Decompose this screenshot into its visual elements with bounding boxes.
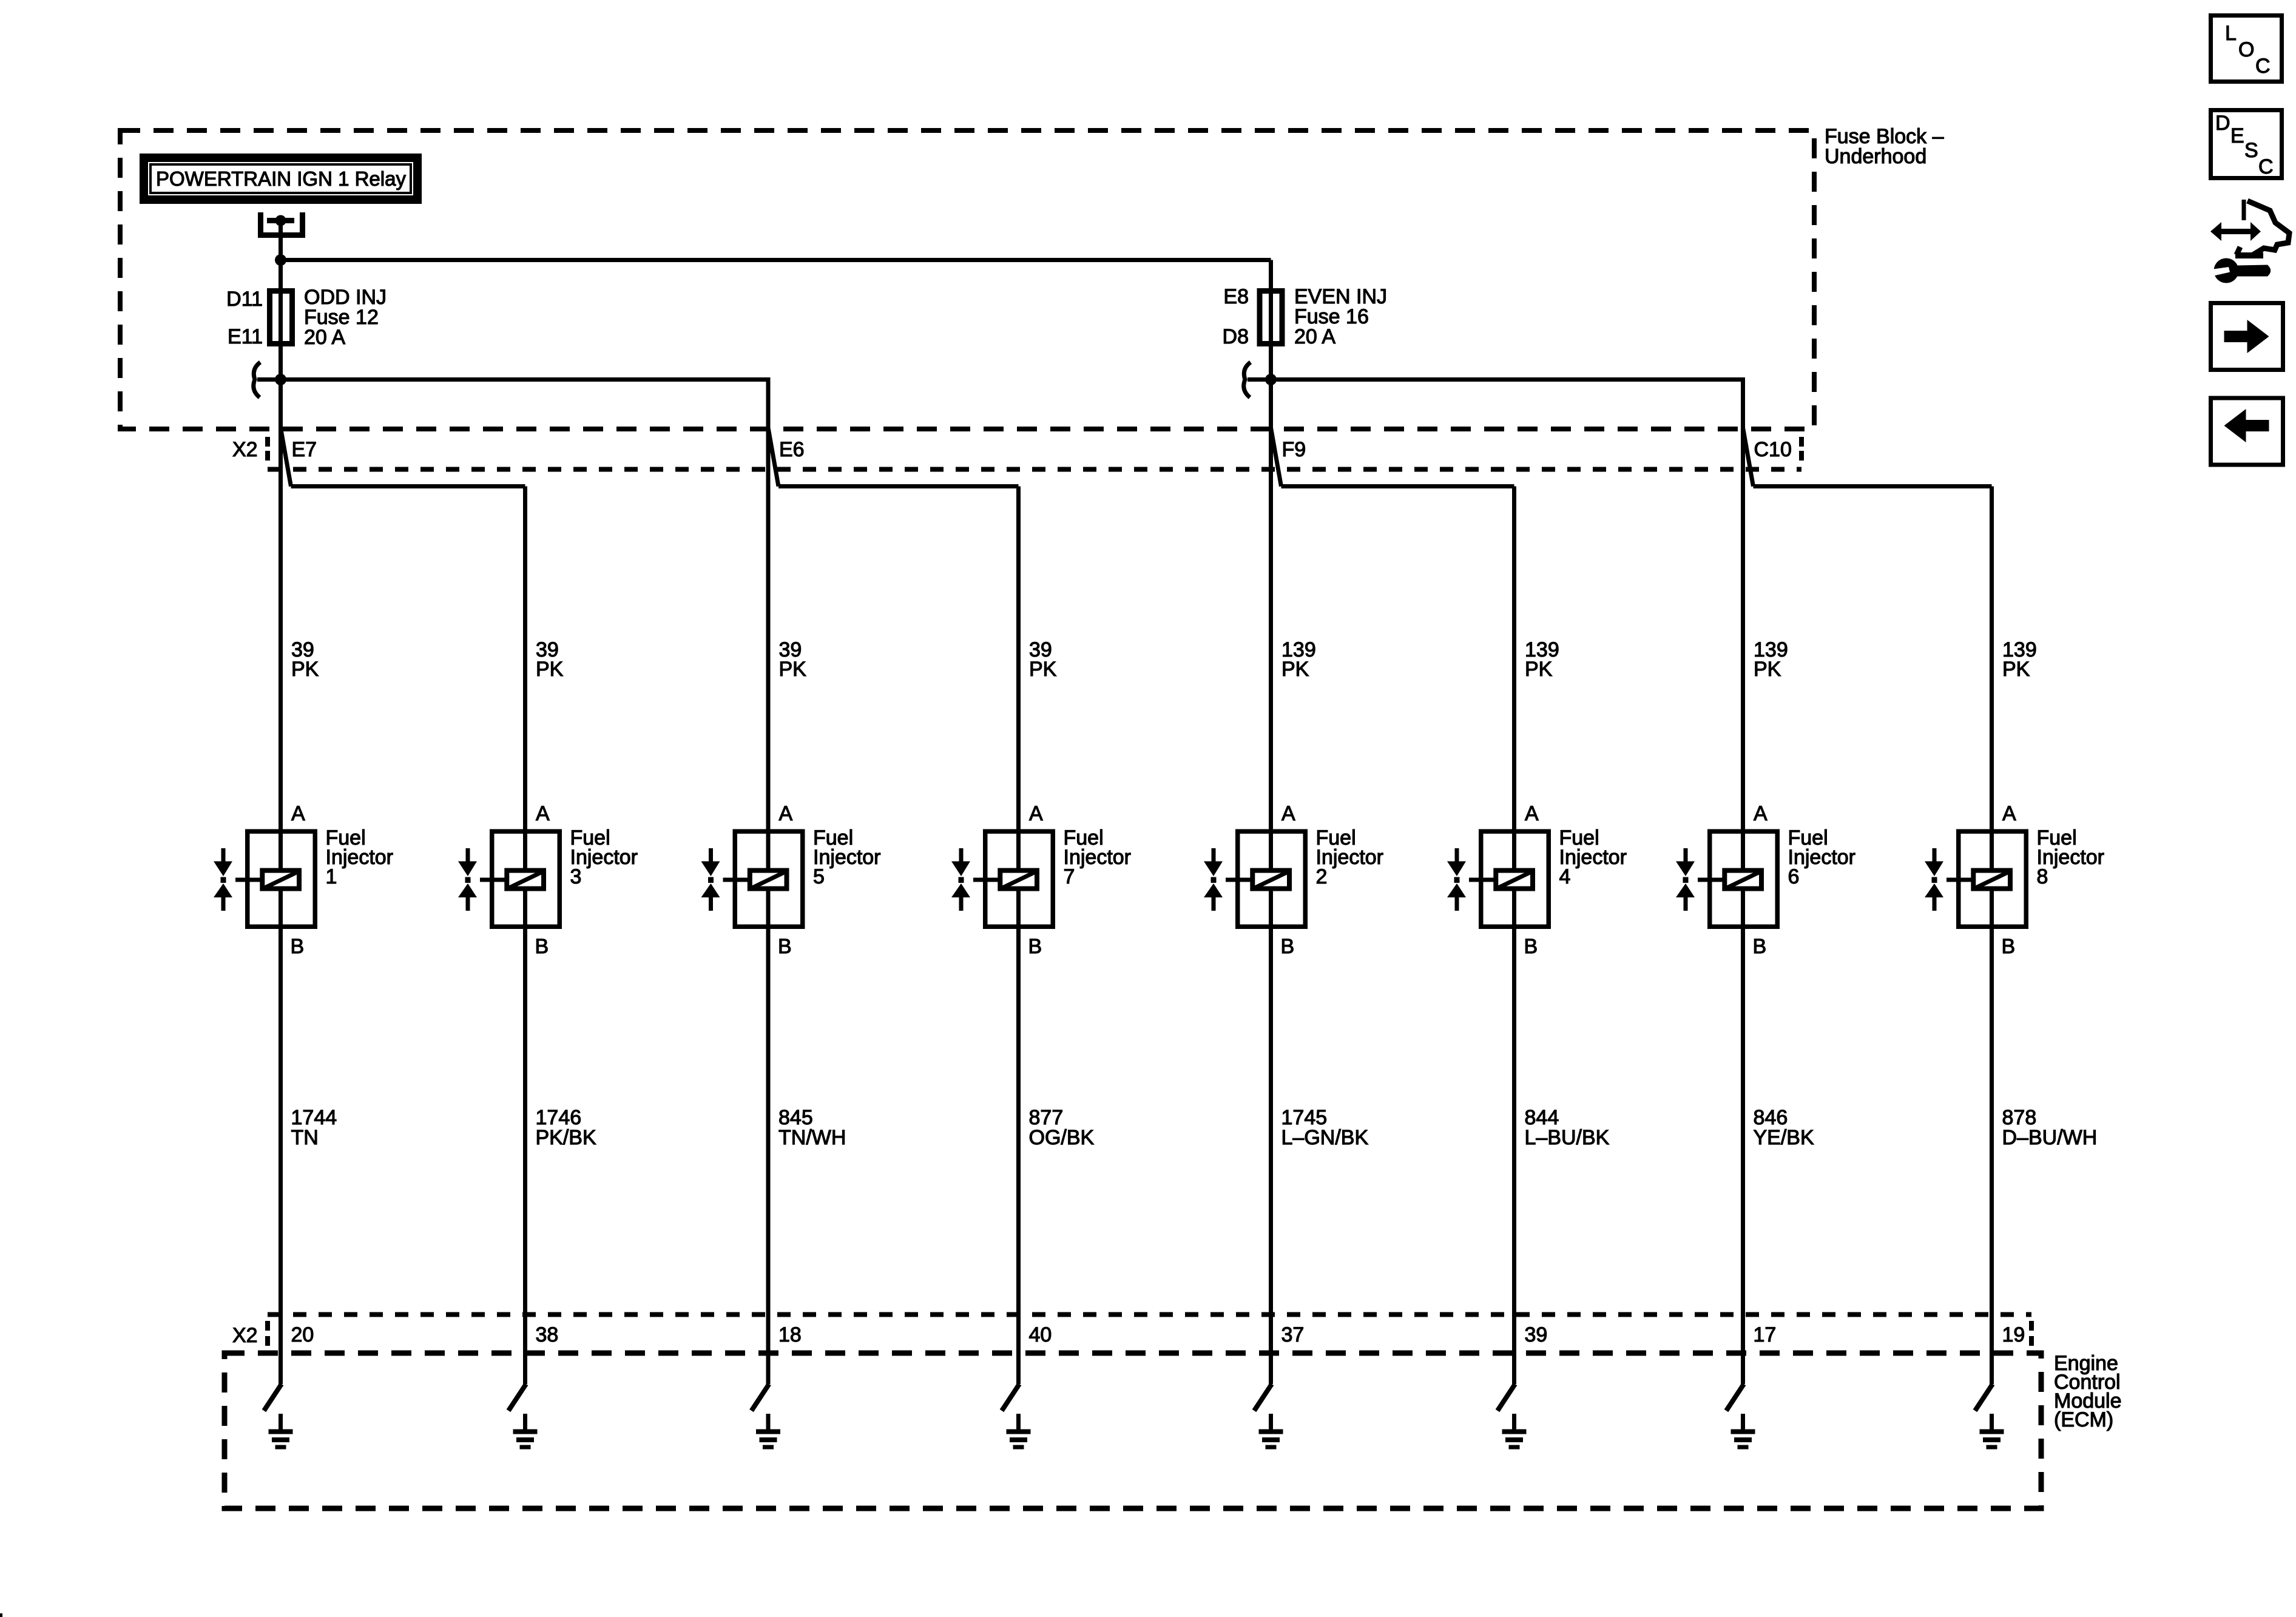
svg-text:8: 8	[2037, 865, 2048, 888]
fuel injector 2 body box	[1238, 831, 1306, 927]
fuse F16 EVEN INJ body	[1260, 291, 1282, 344]
junction dot relay output node	[275, 254, 286, 266]
svg-text:A: A	[1281, 802, 1295, 825]
fuel injector 4 body box	[1481, 831, 1549, 927]
switch driver low-side column 5	[1254, 1384, 1272, 1411]
wire continuation curl at ODD splice	[254, 362, 260, 397]
wire relay output horizontal to EVEN fuse	[281, 258, 1271, 262]
injector 4 pintle valve symbol	[1447, 848, 1466, 911]
svg-text:E: E	[2230, 124, 2244, 147]
svg-text:B: B	[1028, 935, 1042, 958]
svg-text:L: L	[2225, 22, 2237, 45]
label Fuel Injector 8	[2037, 826, 2105, 888]
fuel injector 4 solenoid coil	[1496, 871, 1533, 889]
svg-text:E6: E6	[779, 438, 805, 461]
svg-text:TN: TN	[291, 1126, 319, 1149]
wire vertical column 7 (injector 6 feed/return)	[1741, 380, 1745, 1385]
wire label 139 PK column 6	[1525, 638, 1559, 681]
injector 8 pintle valve symbol	[1925, 848, 1943, 911]
wire label 877 OG/BK column 4	[1029, 1106, 1095, 1149]
svg-text:18: 18	[778, 1323, 802, 1346]
icon previous page arrow	[2211, 398, 2283, 465]
fuel injector 8 body box	[1959, 831, 2027, 927]
connector pin E7 slant	[281, 428, 291, 487]
wire coil lead injector 5	[723, 878, 748, 882]
ground column 4	[1007, 1414, 1031, 1450]
svg-text:6: 6	[1788, 865, 1800, 888]
junction dot EVEN fuse output node	[1265, 374, 1277, 385]
ground column 5	[1259, 1414, 1283, 1450]
icon service info (double arrow, vehicle outline, wrench)	[2209, 200, 2289, 283]
wire vertical column 4 (injector 7 feed/return)	[1016, 487, 1021, 1385]
svg-text:E11: E11	[228, 325, 263, 348]
wire vertical column 1 (injector 1 feed/return)	[279, 221, 283, 1385]
fuse F12 value label	[304, 286, 387, 349]
injector 7 pintle valve symbol	[951, 848, 970, 911]
wire label 139 PK column 8	[2002, 638, 2037, 681]
switch driver low-side column 8	[1975, 1384, 1993, 1411]
svg-text:PK: PK	[1525, 658, 1553, 681]
wire splice horizontal from EVEN fuse output	[1248, 377, 1743, 382]
wire branch from pin E7 to adjacent column	[291, 484, 525, 488]
svg-text:D11: D11	[226, 288, 263, 311]
svg-text:C: C	[2255, 55, 2271, 78]
label Engine Control Module (ECM)	[2054, 1352, 2122, 1431]
svg-text:3: 3	[570, 865, 582, 888]
injector 5 pintle valve symbol	[701, 848, 720, 911]
switch driver low-side column 6	[1497, 1384, 1515, 1411]
wire branch from pin F9 to adjacent column	[1281, 484, 1514, 488]
svg-text:A: A	[2002, 802, 2016, 825]
wire coil lead injector 3	[480, 878, 505, 882]
fuel injector 2 solenoid coil	[1252, 871, 1289, 889]
wire label 39 PK column 3	[779, 638, 807, 681]
svg-text:Underhood: Underhood	[1825, 145, 1926, 168]
connector pin C10 slant	[1743, 428, 1754, 487]
label Fuel Injector 6	[1788, 826, 1856, 888]
switch driver low-side column 1	[264, 1384, 282, 1411]
svg-text:A: A	[1029, 802, 1043, 825]
svg-text:B: B	[535, 935, 549, 958]
label Fuel Injector 2	[1316, 826, 1384, 888]
injector 2 pintle valve symbol	[1204, 848, 1223, 911]
svg-text:PK: PK	[1029, 658, 1057, 681]
wire label 878 D–BU/WH column 8	[2002, 1106, 2098, 1149]
fuel injector 6 body box	[1710, 831, 1778, 927]
wire vertical column 8 (injector 8 feed/return)	[1990, 487, 1994, 1385]
svg-text:PK: PK	[291, 658, 319, 681]
fuse F16 value label	[1294, 285, 1387, 348]
connector X2 lower row dotted line	[268, 1312, 2031, 1317]
svg-text:B: B	[1524, 935, 1538, 958]
wire branch from pin E6 to adjacent column	[778, 484, 1019, 488]
svg-text:POWERTRAIN IGN 1 Relay: POWERTRAIN IGN 1 Relay	[156, 167, 406, 190]
wire drop from ODD splice to connector	[766, 377, 771, 431]
svg-text:PK: PK	[2002, 658, 2030, 681]
connector pin E6 slant	[768, 428, 778, 487]
fuel injector 7 body box	[985, 831, 1053, 927]
wire label 139 PK column 7	[1754, 638, 1788, 681]
ground column 7	[1731, 1414, 1755, 1450]
switch driver low-side column 3	[752, 1384, 769, 1411]
svg-text:X2: X2	[232, 1324, 258, 1347]
fuel injector 5 solenoid coil	[750, 871, 787, 889]
wire continuation curl at EVEN splice	[1244, 362, 1251, 397]
svg-text:OG/BK: OG/BK	[1029, 1126, 1095, 1149]
wire coil lead injector 6	[1698, 878, 1723, 882]
svg-text:A: A	[1754, 802, 1768, 825]
ground column 8	[1980, 1414, 2004, 1450]
svg-text:PK/BK: PK/BK	[536, 1126, 596, 1149]
svg-text:1: 1	[326, 865, 337, 888]
relay K1 POWERTRAIN IGN 1 Relay label box	[144, 158, 417, 200]
svg-text:X2: X2	[232, 438, 258, 461]
engine control module dashed box	[225, 1353, 2041, 1508]
label Fuel Injector 3	[570, 826, 638, 888]
wire vertical column 2 (injector 3 feed/return)	[523, 487, 527, 1385]
fuel injector 8 solenoid coil	[1973, 871, 2010, 889]
svg-text:5: 5	[813, 865, 825, 888]
svg-text:PK: PK	[1754, 658, 1781, 681]
svg-text:D8: D8	[1223, 325, 1249, 348]
ground column 1	[269, 1414, 293, 1450]
svg-text:C: C	[2258, 155, 2274, 178]
fuel injector 7 solenoid coil	[1000, 871, 1037, 889]
connector X2 upper row right end	[1799, 437, 1804, 461]
svg-text:2: 2	[1316, 865, 1328, 888]
wire label 846 YE/BK column 7	[1754, 1106, 1814, 1149]
wire coil lead injector 7	[973, 878, 998, 882]
injector 1 pintle valve symbol	[214, 848, 232, 911]
icon next page arrow	[2211, 303, 2283, 370]
svg-text:B: B	[2002, 935, 2016, 958]
svg-text:L–GN/BK: L–GN/BK	[1281, 1126, 1369, 1149]
svg-text:A: A	[536, 802, 550, 825]
label Fuel Injector 1	[326, 826, 394, 888]
fuel injector 6 solenoid coil	[1724, 871, 1761, 889]
wire coil lead injector 1	[235, 878, 260, 882]
wire coil lead injector 4	[1469, 878, 1494, 882]
svg-text:39: 39	[1525, 1323, 1548, 1346]
switch driver low-side column 7	[1726, 1384, 1744, 1411]
ground column 6	[1502, 1414, 1527, 1450]
svg-text:38: 38	[536, 1323, 559, 1346]
wire label 39 PK column 4	[1029, 638, 1057, 681]
svg-text:TN/WH: TN/WH	[778, 1126, 846, 1149]
svg-text:A: A	[291, 802, 305, 825]
svg-text:20 A: 20 A	[304, 326, 345, 349]
icon DESC box	[2211, 110, 2282, 179]
fuel injector 3 body box	[492, 831, 560, 927]
svg-text:L–BU/BK: L–BU/BK	[1525, 1126, 1610, 1149]
svg-text:4: 4	[1559, 865, 1571, 888]
svg-text:PK: PK	[1281, 658, 1309, 681]
injector 6 pintle valve symbol	[1676, 848, 1695, 911]
svg-text:YE/BK: YE/BK	[1754, 1126, 1814, 1149]
page corner mark	[0, 1613, 2, 1617]
svg-text:S: S	[2244, 139, 2258, 162]
svg-text:7: 7	[1064, 865, 1075, 888]
connector pin F9 slant	[1271, 428, 1281, 487]
fuel injector 5 body box	[735, 831, 803, 927]
fuel injector 1 solenoid coil	[262, 871, 299, 889]
svg-text:O: O	[2238, 38, 2254, 61]
injector 3 pintle valve symbol	[458, 848, 477, 911]
svg-text:20: 20	[291, 1323, 314, 1346]
svg-text:F9: F9	[1282, 438, 1306, 461]
svg-text:C10: C10	[1754, 438, 1792, 461]
wire coil lead injector 2	[1226, 878, 1251, 882]
connector X2 lower row right end	[2029, 1321, 2034, 1346]
wire vertical column 5 (injector 2 feed/return)	[1269, 260, 1273, 1385]
ground column 3	[756, 1414, 780, 1450]
wire vertical column 3 (injector 5 feed/return)	[766, 380, 771, 1385]
wire drop from EVEN splice to connector	[1741, 377, 1745, 431]
label Fuse Block Underhood	[1825, 125, 1944, 168]
wire label 139 PK column 5	[1281, 638, 1316, 681]
label Fuel Injector 7	[1064, 826, 1132, 888]
svg-text:B: B	[1753, 935, 1767, 958]
svg-text:40: 40	[1029, 1323, 1052, 1346]
svg-text:(ECM): (ECM)	[2054, 1408, 2113, 1431]
svg-text:37: 37	[1281, 1323, 1305, 1346]
fuel injector 3 solenoid coil	[507, 871, 544, 889]
svg-text:B: B	[778, 935, 792, 958]
svg-text:E8: E8	[1223, 285, 1249, 308]
junction dot ODD fuse output node	[275, 374, 286, 385]
svg-text:A: A	[779, 802, 793, 825]
wire label 845 TN/WH column 3	[778, 1106, 846, 1149]
wire label 1745 L–GN/BK column 5	[1281, 1106, 1369, 1149]
icon LOC box	[2211, 16, 2282, 82]
wire label 39 PK column 1	[291, 638, 319, 681]
relay contact output symbol	[261, 212, 303, 235]
wire vertical column 6 (injector 4 feed/return)	[1512, 487, 1516, 1385]
switch driver low-side column 2	[508, 1384, 526, 1411]
svg-text:19: 19	[2002, 1323, 2025, 1346]
wire label 1746 PK/BK column 2	[536, 1106, 596, 1149]
wire coil lead injector 8	[1947, 878, 1971, 882]
switch driver low-side column 4	[1002, 1384, 1019, 1411]
connector X2 lower row left end	[265, 1321, 270, 1346]
svg-text:PK: PK	[779, 658, 807, 681]
svg-text:E7: E7	[292, 438, 317, 461]
wire label 39 PK column 2	[536, 638, 564, 681]
connector X2 upper row left end	[265, 437, 270, 461]
wire branch from pin C10 to adjacent column	[1754, 484, 1992, 488]
svg-text:17: 17	[1754, 1323, 1777, 1346]
svg-text:B: B	[291, 935, 305, 958]
svg-text:D–BU/WH: D–BU/WH	[2002, 1126, 2098, 1149]
label Fuel Injector 4	[1559, 826, 1627, 888]
svg-text:B: B	[1281, 935, 1295, 958]
svg-text:20 A: 20 A	[1294, 325, 1335, 348]
ground column 2	[513, 1414, 538, 1450]
svg-text:A: A	[1525, 802, 1539, 825]
wire label 844 L–BU/BK column 6	[1525, 1106, 1610, 1149]
fuse F12 ODD INJ body	[270, 291, 292, 344]
wire label 1744 TN column 1	[291, 1106, 337, 1149]
fuse block underhood dashed box	[120, 130, 1814, 429]
svg-text:PK: PK	[536, 658, 564, 681]
fuel injector 1 body box	[248, 831, 316, 927]
svg-text:D: D	[2215, 112, 2230, 135]
label Fuel Injector 5	[813, 826, 881, 888]
connector X2 upper row dotted line	[268, 467, 1801, 472]
wire splice horizontal from ODD fuse output	[257, 377, 768, 382]
